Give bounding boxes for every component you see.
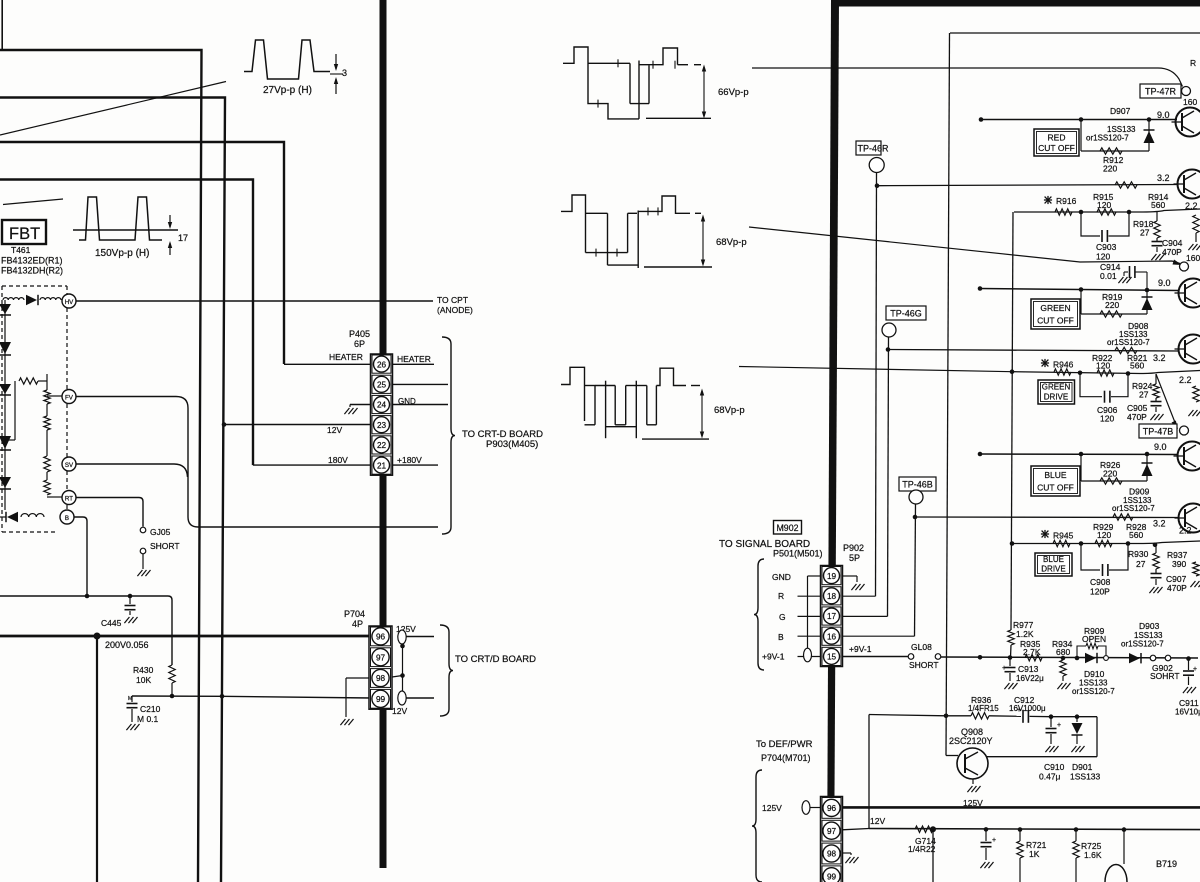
svg-text:GND: GND	[398, 397, 416, 406]
svg-text:+9V-1: +9V-1	[849, 644, 872, 654]
blue drive feedback loop C908	[1081, 544, 1100, 571]
svg-text:16: 16	[827, 632, 837, 641]
svg-text:SV: SV	[65, 462, 74, 469]
FBT left diode stack	[4, 300, 6, 510]
svg-text:16V10μ: 16V10μ	[1175, 708, 1200, 717]
resistor R945	[1053, 540, 1070, 546]
svg-text:99: 99	[376, 695, 386, 704]
svg-text:TO CPT: TO CPT	[437, 295, 468, 305]
svg-text:+9V-1: +9V-1	[762, 652, 785, 662]
svg-text:B: B	[778, 632, 784, 642]
dimension arrow 68Vp-p upper	[702, 217, 704, 264]
svg-text:R430: R430	[133, 665, 154, 675]
svg-text:4P: 4P	[352, 619, 363, 629]
waveform 68Vp-p (upper)	[561, 195, 586, 253]
capacitor C904	[1156, 238, 1158, 241]
wire 200V node	[0, 595, 168, 597]
svg-text:CUT OFF: CUT OFF	[1037, 483, 1074, 493]
green emitter resistor at edge	[1193, 386, 1199, 402]
capacitor on 12V rail	[984, 827, 989, 832]
svg-text:24: 24	[377, 401, 387, 410]
resistor R918	[1156, 211, 1158, 221]
callout line to TP-47B	[739, 367, 1012, 372]
svg-text:220: 220	[1103, 164, 1117, 174]
svg-text:12V: 12V	[327, 425, 342, 435]
pin 16 wires (B)	[798, 635, 821, 637]
svg-text:C908: C908	[1090, 577, 1111, 587]
diode D907	[1148, 120, 1150, 152]
resistor R937 at edge	[1193, 562, 1199, 576]
svg-text:TP-47R: TP-47R	[1145, 87, 1177, 97]
svg-text:SOHRT: SOHRT	[1150, 671, 1180, 681]
svg-text:6P: 6P	[354, 339, 365, 349]
12V rail	[842, 829, 869, 830]
svg-text:9.0: 9.0	[1158, 278, 1171, 288]
green collector row wire	[980, 289, 1179, 291]
waveform 150Vp-p(H)	[73, 229, 178, 231]
svg-text:220: 220	[1103, 469, 1117, 479]
transistor 3.2 (blue)	[1179, 504, 1200, 533]
feedback line down to Q908	[946, 33, 950, 756]
svg-text:R945: R945	[1053, 531, 1074, 541]
svg-text:FB4132DH(R2): FB4132DH(R2)	[1, 266, 63, 276]
pin 98 wires	[392, 676, 403, 678]
svg-text:1.2K: 1.2K	[1016, 629, 1034, 639]
svg-text:DRIVE: DRIVE	[1044, 393, 1068, 402]
svg-text:B: B	[65, 515, 69, 522]
resistor R924	[1155, 374, 1157, 384]
label box GREEN DRIVE	[1038, 380, 1075, 404]
svg-text:3.2: 3.2	[1153, 519, 1166, 529]
dimension arrow 68Vp-p lower	[701, 391, 703, 436]
FBT HV chain: coil diode coil	[3, 298, 24, 300]
svg-text:96: 96	[827, 804, 837, 813]
jumper G902	[1150, 655, 1156, 661]
wire L3	[0, 142, 284, 364]
label box BLUE CUT OFF	[1031, 466, 1080, 496]
jumper GL08	[908, 654, 914, 660]
resistor R915	[1097, 209, 1116, 215]
G signal riser	[888, 337, 889, 616]
transistor 9.0 (blue)	[1178, 442, 1200, 471]
svg-text:16V1000μ: 16V1000μ	[1009, 704, 1046, 713]
svg-text:FBT: FBT	[9, 225, 40, 243]
svg-text:68Vp-p: 68Vp-p	[716, 237, 747, 248]
svg-text:0.47μ: 0.47μ	[1039, 772, 1061, 782]
svg-text:16V22μ: 16V22μ	[1016, 674, 1044, 683]
svg-text:D907: D907	[1110, 106, 1131, 116]
svg-text:560: 560	[1151, 200, 1165, 210]
pin 19 ground wire	[843, 575, 858, 577]
svg-text:P501(M501): P501(M501)	[773, 549, 823, 559]
svg-text:9.0: 9.0	[1154, 442, 1167, 452]
svg-text:27Vp-p (H): 27Vp-p (H)	[263, 85, 312, 96]
svg-text:+: +	[1017, 707, 1021, 714]
svg-text:P704: P704	[344, 609, 365, 619]
svg-text:68Vp-p: 68Vp-p	[714, 405, 745, 416]
svg-text:2.7K: 2.7K	[1023, 647, 1041, 657]
wire L1 top	[0, 50, 202, 882]
svg-text:2.2: 2.2	[1185, 201, 1198, 211]
RT wire to GJ05	[76, 498, 143, 527]
svg-text:1SS133: 1SS133	[1070, 772, 1101, 782]
svg-text:B719: B719	[1156, 859, 1177, 869]
svg-text:200V0.056: 200V0.056	[105, 640, 149, 650]
diode D903	[1129, 653, 1140, 663]
svg-text:12V: 12V	[870, 816, 885, 826]
red emitter resistor at edge	[1193, 215, 1199, 233]
svg-text:27: 27	[1140, 228, 1150, 238]
callout line to TP-47G	[749, 227, 1180, 264]
svg-text:HV: HV	[65, 299, 74, 306]
svg-text:D903: D903	[1139, 621, 1160, 631]
red drive feedback loop C903	[1081, 212, 1100, 236]
svg-text:P902: P902	[843, 543, 864, 553]
terminal RT	[62, 491, 76, 505]
resistor R919	[1100, 311, 1122, 317]
svg-text:BLUE: BLUE	[1044, 470, 1067, 480]
blue base row wire	[915, 516, 1179, 519]
capacitor C903	[1101, 230, 1103, 242]
svg-text:98: 98	[827, 850, 837, 859]
dimension arrow 66Vp-p	[703, 67, 705, 116]
svg-text:FB4132ED(R1): FB4132ED(R1)	[1, 256, 63, 266]
svg-text:3: 3	[342, 68, 347, 78]
svg-text:1.6K: 1.6K	[1084, 850, 1102, 860]
svg-text:150Vp-p (H): 150Vp-p (H)	[95, 248, 149, 259]
diode D908	[1146, 290, 1148, 314]
svg-text:GREEN: GREEN	[1042, 383, 1071, 392]
terminal B	[60, 510, 74, 524]
svg-text:OPEN: OPEN	[1082, 634, 1106, 644]
+9V-1 wire from pin 15	[842, 656, 908, 658]
wire down from 125V junction	[96, 636, 98, 882]
svg-text:97: 97	[376, 653, 386, 662]
svg-text:RT: RT	[65, 496, 73, 503]
svg-text:470P: 470P	[1127, 412, 1147, 422]
svg-text:2.2: 2.2	[1179, 375, 1192, 385]
svg-text:1/4FR15: 1/4FR15	[968, 704, 999, 713]
brace to DEF/PWR	[752, 770, 762, 882]
svg-text:or1SS120-7: or1SS120-7	[1121, 640, 1164, 649]
svg-text:470P: 470P	[1162, 247, 1182, 257]
resistor G714	[915, 826, 933, 832]
svg-text:GND: GND	[772, 572, 791, 582]
R signal riser	[876, 173, 877, 597]
svg-text:+: +	[1057, 722, 1061, 729]
pin 26 wire	[284, 363, 371, 365]
svg-text:27: 27	[1136, 559, 1146, 569]
svg-text:3.2: 3.2	[1157, 173, 1170, 183]
svg-text:T461: T461	[11, 245, 31, 255]
svg-text:560: 560	[1130, 361, 1144, 371]
test point TP-46R	[856, 141, 881, 155]
resistor R926	[1100, 478, 1122, 484]
green base row wire	[888, 350, 1179, 352]
svg-text:120P: 120P	[1090, 587, 1110, 597]
svg-text:25: 25	[377, 381, 387, 390]
resistor R912	[1100, 148, 1122, 154]
svg-text:0.01: 0.01	[1100, 271, 1117, 281]
diode D901	[1076, 717, 1078, 722]
resistor R946	[1054, 369, 1071, 375]
svg-text:M902: M902	[776, 523, 798, 533]
svg-text:66Vp-p: 66Vp-p	[718, 87, 749, 98]
pin 15 wire with link	[798, 656, 821, 658]
test point TP-46B	[899, 477, 936, 491]
svg-text:180V: 180V	[328, 455, 348, 465]
diagonal callout into TP-47B	[1156, 374, 1176, 425]
svg-text:SHORT: SHORT	[909, 660, 939, 670]
label box BLUE DRIVE	[1035, 553, 1072, 576]
green drive feedback loop C906	[1080, 373, 1102, 397]
wire L2	[0, 98, 225, 882]
pin 17 wires (G)	[798, 615, 821, 617]
svg-text:390: 390	[1172, 559, 1186, 569]
label box RED CUT OFF	[1034, 129, 1079, 156]
jumper GJ05 SHORT	[140, 527, 146, 533]
B diode and coil	[7, 512, 18, 522]
svg-text:9.0: 9.0	[1157, 110, 1170, 120]
svg-text:or1SS120-7: or1SS120-7	[1112, 504, 1155, 513]
red drive row wire	[1014, 209, 1200, 212]
capacitor C210	[131, 696, 133, 702]
SV wire	[76, 464, 188, 477]
wire L4	[0, 180, 253, 466]
svg-text:5P: 5P	[849, 553, 860, 563]
waveform 68Vp-p (lower)	[561, 367, 585, 421]
top edge bar	[835, 0, 1200, 7]
resistor R914	[1115, 182, 1137, 188]
resistor R930	[1153, 543, 1158, 548]
svg-text:TP-47B: TP-47B	[1143, 427, 1174, 437]
svg-text:22: 22	[377, 441, 387, 450]
transformer B719	[1122, 827, 1127, 832]
pin 18 wires (R)	[798, 595, 821, 597]
resistor R935	[1025, 655, 1042, 661]
svg-text:C910: C910	[1044, 762, 1065, 772]
svg-text:RED: RED	[1048, 133, 1066, 143]
ground below GJ05	[137, 570, 142, 576]
resistor R922	[1097, 370, 1114, 376]
svg-text:CUT OFF: CUT OFF	[1038, 143, 1075, 153]
FBT box	[2, 220, 46, 244]
resistor R921	[1115, 347, 1137, 353]
callout line to TP-47R	[752, 68, 1183, 87]
svg-text:21: 21	[377, 461, 387, 470]
svg-text:17: 17	[178, 233, 188, 243]
board boundary bar (left)	[380, 0, 387, 868]
svg-text:C913: C913	[1018, 664, 1039, 674]
pin 98 ground	[843, 852, 852, 854]
red cutoff clamp wire	[1080, 120, 1082, 152]
FBT internal divider chain	[46, 374, 48, 390]
waveform 27Vp-p(H)	[244, 40, 330, 79]
svg-text:R: R	[1190, 58, 1196, 68]
brace TO CRT-D BOARD	[442, 337, 455, 534]
svg-text:120: 120	[1096, 252, 1110, 262]
svg-text:96: 96	[376, 633, 386, 642]
125V distribution line	[0, 635, 371, 638]
red base row wire	[877, 185, 1178, 186]
svg-text:2SC2120Y: 2SC2120Y	[949, 736, 993, 746]
pin 24 wire and ground	[350, 404, 371, 406]
svg-text:C445: C445	[101, 618, 122, 628]
svg-text:C210: C210	[140, 704, 161, 714]
svg-text:R930: R930	[1128, 549, 1149, 559]
FBT dashed outline	[2, 285, 67, 287]
terminal SV	[62, 457, 76, 471]
svg-text:C911: C911	[1179, 698, 1199, 708]
wire 12V riser	[868, 715, 870, 829]
svg-text:G: G	[779, 612, 786, 622]
terminal FV	[62, 390, 76, 404]
resistor R929	[1095, 540, 1112, 546]
capacitor C907	[1155, 569, 1157, 573]
svg-text:FV: FV	[65, 395, 74, 402]
callout line to 150Vp-p waveform	[3, 199, 63, 205]
resistor R977	[1011, 212, 1013, 630]
capacitor C905	[1155, 398, 1157, 401]
svg-text:10K: 10K	[136, 675, 151, 685]
board boundary bar (right)	[827, 0, 839, 882]
svg-text:160: 160	[1183, 97, 1197, 107]
B signal riser	[915, 504, 916, 636]
test point TP-47G circle	[1180, 262, 1189, 271]
svg-text:M: M	[128, 696, 132, 702]
svg-text:98: 98	[376, 674, 386, 683]
svg-text:or1SS120-7: or1SS120-7	[1072, 687, 1115, 696]
svg-text:680: 680	[1056, 647, 1070, 657]
transistor 9.0 (green)	[1179, 279, 1200, 308]
svg-text:1/4R22: 1/4R22	[908, 844, 936, 854]
svg-text:120: 120	[1097, 200, 1111, 210]
terminal HV	[62, 294, 76, 308]
label box M902	[774, 521, 802, 535]
signal border line top	[950, 32, 1200, 34]
resistor R936	[971, 713, 989, 719]
blue cutoff clamp wire	[1080, 454, 1082, 481]
capacitor C445	[129, 596, 131, 604]
diode D909	[1146, 454, 1148, 481]
svg-text:D910: D910	[1084, 669, 1105, 679]
svg-text:GREEN: GREEN	[1040, 303, 1070, 313]
svg-text:15: 15	[827, 653, 837, 662]
svg-text:or1SS120-7: or1SS120-7	[1107, 338, 1150, 347]
svg-text:(ANODE): (ANODE)	[437, 305, 473, 315]
svg-text:D901: D901	[1072, 762, 1093, 772]
svg-text:R916: R916	[1056, 196, 1077, 206]
waveform 66Vp-p	[563, 47, 639, 119]
pin 99 output 12V	[398, 691, 406, 705]
pin 25 wire	[393, 383, 449, 385]
svg-text:M 0.1: M 0.1	[137, 714, 159, 724]
pin 21 wire 180V	[253, 464, 371, 466]
svg-text:+180V: +180V	[397, 455, 422, 465]
svg-text:DRIVE: DRIVE	[1041, 565, 1065, 574]
svg-text:2.2: 2.2	[1179, 526, 1192, 536]
svg-text:SHORT: SHORT	[150, 541, 180, 551]
svg-text:23: 23	[377, 421, 387, 430]
svg-text:C903: C903	[1096, 242, 1117, 252]
svg-text:BLUE: BLUE	[1043, 555, 1064, 564]
capacitor C913	[1009, 658, 1011, 667]
svg-text:220: 220	[1105, 300, 1119, 310]
svg-text:P903(M405): P903(M405)	[486, 439, 538, 450]
125V rail	[841, 806, 1200, 809]
svg-text:TP-46R: TP-46R	[858, 144, 890, 154]
svg-text:TP-46G: TP-46G	[890, 309, 922, 319]
svg-text:or1SS120-7: or1SS120-7	[1086, 134, 1129, 143]
svg-text:TO CRT/D BOARD: TO CRT/D BOARD	[455, 654, 536, 665]
svg-text:D909: D909	[1129, 487, 1150, 497]
svg-text:27: 27	[1139, 390, 1149, 400]
B wire	[74, 517, 87, 596]
svg-text:560: 560	[1129, 530, 1143, 540]
svg-text:CUT OFF: CUT OFF	[1037, 316, 1074, 326]
svg-text:HEATER: HEATER	[329, 352, 363, 362]
svg-text:P704(M701): P704(M701)	[761, 753, 811, 763]
blue collector row wire	[980, 453, 1178, 456]
test point TP-47R	[1140, 84, 1181, 98]
svg-text:18: 18	[827, 592, 837, 601]
transistor 3.2 (red)	[1178, 170, 1200, 199]
red collector row wire	[981, 119, 1177, 121]
svg-text:17: 17	[827, 612, 837, 621]
brace to signal board	[754, 559, 764, 670]
svg-text:+: +	[1193, 666, 1197, 673]
resistor R725	[1074, 827, 1079, 832]
green cutoff clamp wire	[1080, 290, 1082, 315]
diagonal callout to 27Vp-p waveform	[0, 82, 226, 136]
label box GREEN CUT OFF	[1031, 299, 1080, 329]
svg-text:120: 120	[1097, 530, 1111, 540]
green drive row wire	[1012, 371, 1200, 374]
test point TP-46G	[886, 306, 926, 320]
svg-text:26: 26	[377, 360, 387, 369]
svg-text:R946: R946	[1053, 360, 1074, 370]
svg-text:3.2: 3.2	[1153, 353, 1166, 363]
svg-text:GL08: GL08	[911, 642, 932, 652]
blue drive row wire	[1012, 541, 1200, 544]
wire pin96 to pin99 cable	[402, 644, 404, 691]
capacitor C910	[1050, 717, 1052, 727]
brace TO CRT/D BOARD	[440, 625, 453, 716]
HV wire to CPT anode	[76, 300, 433, 302]
connector P704 4P (right)	[821, 797, 843, 882]
svg-text:+: +	[992, 837, 996, 844]
svg-text:99: 99	[827, 873, 837, 882]
12V wire row	[132, 695, 222, 697]
diode D910	[1085, 653, 1096, 663]
resistor R721	[1018, 827, 1023, 832]
pin 23 wire 12V	[225, 424, 371, 426]
FBT internal resistor	[19, 378, 38, 384]
svg-text:R: R	[778, 591, 784, 601]
left edge wire	[1, 0, 3, 50]
svg-text:125V: 125V	[762, 803, 782, 813]
svg-text:120: 120	[1100, 414, 1114, 424]
gnd-to-9V link	[807, 576, 809, 648]
FV wire	[76, 397, 438, 528]
base feed wire R936 row	[869, 715, 946, 716]
svg-text:TP-46B: TP-46B	[902, 480, 933, 490]
svg-text:97: 97	[827, 827, 837, 836]
svg-text:To DEF/PWR: To DEF/PWR	[756, 739, 813, 750]
capacitor C911	[1186, 656, 1191, 661]
svg-text:HEATER: HEATER	[397, 354, 431, 364]
svg-text:12V: 12V	[392, 706, 407, 716]
